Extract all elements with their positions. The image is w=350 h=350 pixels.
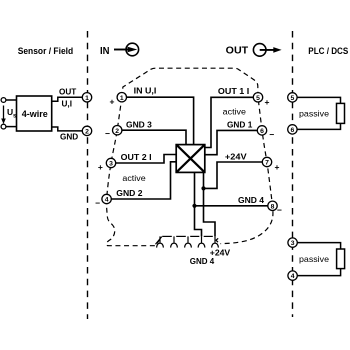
wire +24V rail: transformer bottom to bus fork 5 <box>204 171 216 236</box>
wire GND 2: module terminal 4 to transformer left <box>111 162 177 199</box>
svg-text:4: 4 <box>105 197 109 204</box>
svg-text:4: 4 <box>291 273 295 280</box>
svg-text:passive: passive <box>299 255 329 264</box>
4-wire box <box>17 96 52 131</box>
bus connector fork 1 <box>157 236 164 247</box>
module terminal 3 <box>106 158 115 167</box>
svg-text:1: 1 <box>85 95 89 102</box>
wire +24V: module terminal 7 to power rail junction <box>204 162 263 188</box>
wire GND 4: rail junction to module terminal 8 <box>195 205 268 207</box>
svg-text:+: + <box>275 162 280 172</box>
wire GND 3: module terminal 2 to transformer top <box>122 130 186 146</box>
module terminal 6 <box>257 126 266 135</box>
bus connector fork 5 <box>212 236 219 247</box>
bus connector fork 4 <box>198 236 205 247</box>
module terminal 8 <box>268 201 277 210</box>
resistor (passive load 1) <box>337 103 345 123</box>
module terminal 5 <box>253 93 262 102</box>
sensor terminal circle bottom <box>1 124 6 129</box>
svg-text:1: 1 <box>120 95 124 102</box>
bus connector fork 2 <box>171 236 178 247</box>
PLC terminal 5 <box>288 93 297 102</box>
svg-text:U,I: U,I <box>62 99 72 108</box>
svg-text:OUT: OUT <box>226 44 249 56</box>
svg-text:5: 5 <box>256 95 260 102</box>
svg-text:active: active <box>122 174 146 183</box>
svg-text:active: active <box>223 108 247 117</box>
PLC load 2 wiring (terminals 3-4, passive) <box>297 243 340 276</box>
svg-text:GND 4: GND 4 <box>190 257 215 266</box>
field terminal 1 <box>82 93 91 102</box>
svg-text:+24V: +24V <box>225 152 247 161</box>
wire OUT 2 I: module terminal 3 to transformer left <box>116 155 177 164</box>
svg-text:+: + <box>110 96 115 106</box>
svg-text:−: − <box>105 129 110 139</box>
wire OUT 1 I: transformer right to module terminal 5 <box>204 97 253 147</box>
svg-text:GND 1: GND 1 <box>227 120 253 129</box>
svg-text:3: 3 <box>109 161 113 168</box>
header: OUT icon (arrow out of circle) <box>253 44 276 57</box>
PLC load 1 wiring (terminals 5-6, passive) <box>297 97 341 129</box>
module terminal 4 <box>102 194 111 203</box>
dashed slant through fork 1 <box>156 237 162 245</box>
module terminal 2 <box>113 126 122 135</box>
PLC terminal 4 <box>288 271 297 280</box>
junction dot +24V <box>201 186 205 190</box>
wire sensor top to 4-wire box <box>6 99 17 101</box>
junction dot GND4 <box>192 204 196 208</box>
svg-text:PLC / DCS: PLC / DCS <box>308 46 348 56</box>
header: IN icon (arrow into circle) <box>114 43 139 56</box>
boundary dashed line left (Sensor/Field | IN) <box>87 31 89 319</box>
module dashed outline <box>122 68 273 243</box>
transformer (isolator) box with X <box>176 145 205 173</box>
svg-text:6: 6 <box>291 127 295 134</box>
svg-text:GND 4: GND 4 <box>238 196 264 205</box>
svg-text:OUT 1 I: OUT 1 I <box>218 87 249 96</box>
PLC terminal 3 <box>288 238 297 247</box>
sensor terminal circle top <box>1 98 6 103</box>
wire GND4 rail: transformer bottom to bus fork 4 <box>195 171 202 236</box>
svg-text:2: 2 <box>85 129 89 136</box>
Us arrow (down) <box>3 106 5 120</box>
module outline kink at bus fork 5 <box>216 238 218 242</box>
svg-text:5: 5 <box>291 95 295 102</box>
module terminal 7 <box>262 157 271 166</box>
svg-text:OUT 2 I: OUT 2 I <box>121 153 152 162</box>
svg-text:Sensor / Field: Sensor / Field <box>18 46 74 56</box>
svg-text:2: 2 <box>115 128 119 135</box>
field terminal 2 <box>82 126 91 135</box>
PLC terminal 6 <box>288 125 297 134</box>
svg-text:−: − <box>269 130 274 140</box>
svg-text:7: 7 <box>265 160 269 167</box>
svg-text:GND 3: GND 3 <box>126 120 152 129</box>
svg-text:8: 8 <box>271 203 275 210</box>
boundary dashed line right (OUT | PLC/DCS) <box>292 31 294 317</box>
wire 4-wire OUT to terminal 1 <box>52 97 82 101</box>
svg-text:−: − <box>95 198 100 208</box>
svg-text:6: 6 <box>260 128 264 135</box>
svg-text:+: + <box>98 162 103 172</box>
svg-text:−: − <box>277 205 282 215</box>
wire sensor bottom to 4-wire box <box>6 126 17 128</box>
svg-text:+: + <box>265 97 270 107</box>
svg-text:OUT: OUT <box>59 88 76 97</box>
svg-text:IN: IN <box>100 45 110 57</box>
svg-text:3: 3 <box>291 240 295 247</box>
module outline left edge <box>106 97 161 246</box>
wire GND 1: transformer right to module terminal 6 <box>204 130 257 154</box>
wire 4-wire GND to terminal 2 <box>52 127 82 131</box>
module outline bottom dashes along bus forks <box>162 235 213 237</box>
svg-text:IN U,I: IN U,I <box>134 87 157 96</box>
module terminal 1 <box>117 93 126 102</box>
svg-text:4-wire: 4-wire <box>22 109 48 119</box>
svg-text:GND: GND <box>60 132 78 141</box>
svg-text:passive: passive <box>299 110 329 119</box>
svg-text:GND 2: GND 2 <box>116 189 143 198</box>
wire IN U,I: module terminal 1 to transformer top <box>127 97 194 146</box>
resistor (passive load 2) <box>337 249 345 269</box>
bus connector fork 3 <box>185 236 192 247</box>
